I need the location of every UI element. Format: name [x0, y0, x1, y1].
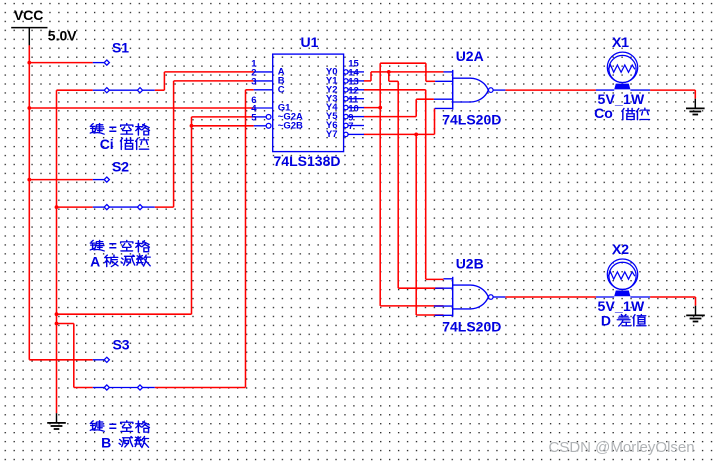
- U1 pin 11 Y4: [344, 105, 348, 109]
- junction: [190, 124, 194, 128]
- wire Y5 to U2A in3: [416, 98, 434, 100]
- junction: [27, 178, 31, 182]
- wire Y5 out: [364, 116, 417, 118]
- lamp X1 5V 1W: [596, 34, 650, 107]
- svg-text:=: =: [109, 238, 117, 254]
- U1 pin 12 Y3: [344, 97, 348, 101]
- svg-text:74LS20D: 74LS20D: [442, 111, 501, 127]
- U1 pin 10 Y5: [344, 114, 348, 118]
- wire X2 to gnd v: [695, 297, 697, 306]
- svg-text:74LS20D: 74LS20D: [442, 318, 501, 334]
- svg-text:A: A: [90, 254, 100, 270]
- wire VCC to S3 throw1: [29, 359, 93, 361]
- wire S1 to A vertical: [163, 72, 165, 90]
- wire Y1 stub out: [364, 80, 372, 82]
- wire S2 to B vertical: [173, 81, 175, 207]
- junction: [55, 322, 59, 326]
- junction: [27, 61, 31, 65]
- wire Y5 jog up: [415, 99, 417, 116]
- junction: [55, 205, 59, 209]
- NAND gate U2B 74LS20D: [434, 255, 506, 334]
- wire Y7 up to U2A in4: [434, 108, 436, 134]
- switch S2: [93, 159, 155, 210]
- wire Y4 top bypass h: [380, 62, 426, 64]
- wire GND to S3 link h: [57, 323, 74, 325]
- wire S3 to U1 pin C: [246, 89, 254, 91]
- svg-text:C: C: [278, 84, 285, 95]
- junction: [387, 70, 391, 74]
- svg-text:74LS138D: 74LS138D: [274, 153, 341, 169]
- U1 pin 15 Y0: [344, 70, 348, 74]
- svg-text:B: B: [101, 435, 111, 451]
- wire VCC vertical rail: [28, 45, 30, 359]
- U1 pin 5 ~G2B: [254, 125, 266, 127]
- svg-text:S2: S2: [112, 159, 129, 175]
- svg-text:Ci: Ci: [100, 136, 114, 152]
- U1 pin 7 Y7: [344, 132, 348, 136]
- wire Y7 branch long v: [415, 134, 417, 315]
- wire VCC to S1 throw1: [29, 62, 93, 64]
- lamp X2 5V 1W: [596, 241, 650, 314]
- wire U2B out to X2: [505, 296, 596, 298]
- U1 pin 4 ~G2A: [254, 116, 266, 118]
- wire Y2 out: [364, 89, 426, 91]
- wire S1 pole out: [155, 89, 165, 91]
- wire to U1 ~G2A: [192, 116, 254, 118]
- wire VCC to S2 throw1: [29, 179, 93, 181]
- svg-text:CSDN @MorleyOlsen: CSDN @MorleyOlsen: [549, 439, 695, 456]
- svg-text:Co: Co: [594, 105, 613, 121]
- wire S2 to U1 pin B: [174, 80, 254, 82]
- svg-text:5: 5: [251, 113, 257, 124]
- wire GND to S3 link v: [73, 324, 75, 388]
- label X1: Co 借位: [594, 105, 649, 121]
- switch S3: [93, 337, 155, 391]
- svg-text:X2: X2: [612, 241, 629, 257]
- wire Y4 to U2B in3: [380, 305, 443, 307]
- wire Y4 to U2A in2: [426, 80, 435, 82]
- wire Y1 to U2A in1: [371, 71, 444, 73]
- wire Y1 branch v1: [388, 72, 390, 81]
- wire Y1 branch long v: [397, 81, 399, 288]
- label key S3: 键 = 空格 / B 减数: [90, 418, 149, 451]
- switch S1: [93, 40, 155, 93]
- junction: [55, 312, 59, 316]
- wire GND to S1 throw2: [57, 89, 93, 91]
- ground bottom left: [47, 413, 66, 429]
- svg-text:VCC: VCC: [14, 7, 44, 23]
- svg-text:~G2B: ~G2B: [278, 120, 303, 131]
- power VCC: [11, 7, 77, 45]
- svg-text:Y7: Y7: [326, 129, 338, 140]
- svg-text:7: 7: [348, 121, 353, 132]
- svg-text:X1: X1: [612, 34, 629, 50]
- wire S2 pole out: [155, 206, 174, 208]
- wire GND to S2 throw2: [57, 206, 93, 208]
- svg-text:=: =: [109, 418, 117, 434]
- svg-text:=: =: [109, 121, 117, 137]
- wire X1 to gnd v: [694, 90, 696, 99]
- wire Y1 jog up: [370, 72, 372, 81]
- wire S1 to U1 pin A: [164, 71, 253, 73]
- svg-text:5.0V: 5.0V: [48, 27, 77, 43]
- U1 pin 9 Y6: [344, 123, 348, 127]
- svg-text:S1: S1: [112, 40, 129, 56]
- wire Y2 to U2B in1: [426, 278, 444, 280]
- U1 pin 3 C: [254, 89, 273, 91]
- U1 pin 14 Y1: [344, 79, 348, 83]
- U1 pin 2 B: [254, 80, 273, 82]
- svg-text:3: 3: [251, 77, 256, 88]
- ground right of X1: [686, 99, 705, 115]
- wire to U1 ~G2B: [192, 125, 254, 127]
- svg-text:U1: U1: [301, 34, 319, 50]
- wire G2 enables vertical: [191, 117, 193, 314]
- ground right of X2: [686, 306, 705, 322]
- label key S1: 键 = 空格 / Ci 借位: [90, 121, 149, 152]
- wire VCC to U1 G1: [29, 107, 254, 109]
- wire GND vertical rail: [56, 90, 58, 413]
- wire Y1 to U2B in2: [398, 287, 443, 289]
- label X2: D 差值: [601, 312, 646, 328]
- U1 pin 6 G1: [254, 107, 273, 109]
- junction: [27, 106, 31, 110]
- wire S3 pole out: [155, 387, 246, 389]
- wire X1 to gnd h: [650, 89, 695, 91]
- wire Y4 bypass down: [425, 63, 427, 81]
- svg-text:D: D: [601, 312, 611, 328]
- wire Y1 branch h1: [389, 80, 398, 82]
- svg-text:U2A: U2A: [456, 48, 484, 64]
- wire Y4 long vertical: [379, 63, 381, 306]
- wire Y4 stub out: [364, 107, 381, 109]
- NAND gate U2A 74LS20D: [434, 48, 506, 127]
- U1 pin 13 Y2: [344, 88, 348, 92]
- wire Y2 long v: [425, 90, 427, 280]
- wire S3 to C vertical: [245, 90, 247, 388]
- wire GND to S3 throw2: [74, 387, 93, 389]
- wire Y7 out: [364, 133, 435, 135]
- wire Y7 to U2B in4: [416, 314, 443, 316]
- svg-text:U2B: U2B: [456, 255, 484, 271]
- junction: [414, 133, 418, 137]
- op-amp U1 74LS138D decoder: [251, 34, 364, 169]
- svg-text:S3: S3: [112, 337, 129, 353]
- wire U2A out to X1: [505, 89, 596, 91]
- wire GND to G2 enables h: [57, 313, 192, 315]
- junction: [378, 106, 382, 110]
- U1 pin 1 A: [254, 71, 273, 73]
- label key S2: 键 = 空格 / A 被减数: [90, 238, 150, 270]
- wire X2 to gnd h: [650, 296, 695, 298]
